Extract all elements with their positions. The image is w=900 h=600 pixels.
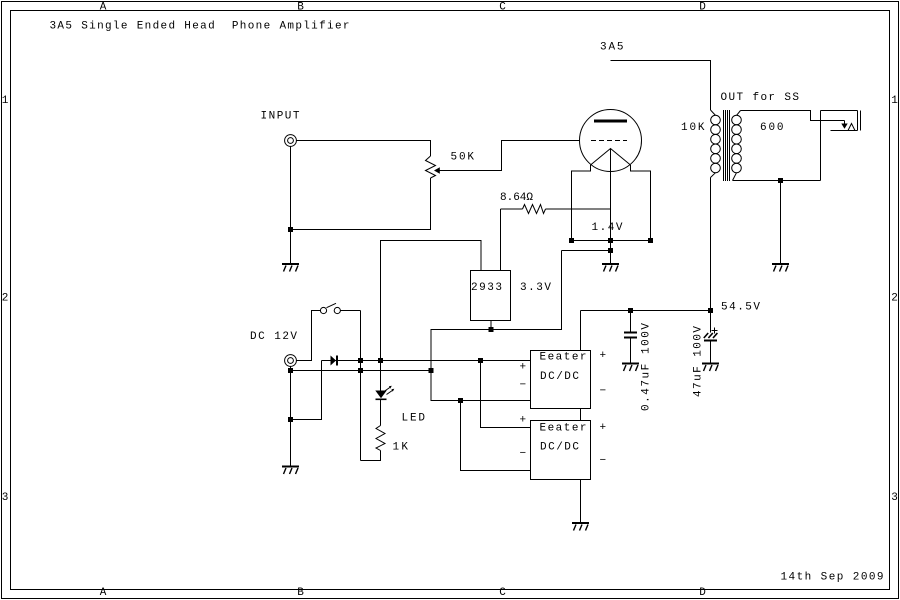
svg-text:D: D	[699, 587, 706, 599]
regulator U1 2933 box	[471, 271, 511, 321]
svg-text:2: 2	[891, 293, 898, 305]
svg-text:+: +	[600, 422, 607, 434]
wire phone jack left side	[820, 111, 822, 181]
wire input jack to volume pot top	[297, 141, 431, 157]
junction at led branch on 12V rail	[378, 358, 383, 363]
potentiometer VR1 wiper arrow	[434, 167, 440, 174]
junction at C1 on HV rail	[628, 308, 633, 313]
wire ground node to regulator ground riser	[562, 251, 611, 264]
wire 47uF top lead	[710, 311, 712, 333]
junction at filament ground stub	[608, 248, 613, 253]
wire filament right leg down to cathode rail	[631, 165, 651, 241]
wire led branch down	[380, 361, 382, 391]
potentiometer VR1 body	[426, 156, 436, 178]
wire filament left leg down to cathode rail	[572, 165, 591, 241]
junction at regulator bottom pin	[489, 327, 494, 332]
wire transformer primary bottom to HV rail	[710, 178, 712, 311]
junction at switch riser on 12V rail	[358, 358, 363, 363]
wire 1K bottom return	[361, 451, 381, 461]
junction at C2 on HV rail	[708, 308, 713, 313]
svg-text:+: +	[600, 350, 607, 362]
tube V1 filament	[591, 149, 631, 166]
wire dcdc series link	[580, 409, 582, 421]
wire transformer secondary top to jack	[741, 111, 845, 121]
wire dc minus rail	[291, 370, 432, 372]
svg-text:54.5V: 54.5V	[721, 302, 760, 314]
wire dcdc1 output plus riser	[580, 311, 582, 351]
ground at input jack	[282, 263, 299, 272]
svg-text:OUT for SS: OUT for SS	[721, 92, 800, 104]
junction at regulator ground node B	[429, 368, 434, 373]
junction at dcdc1 minus wire	[458, 398, 463, 403]
tube V1 plate	[594, 120, 627, 123]
svg-text:B: B	[297, 2, 304, 14]
svg-text:DC/DC: DC/DC	[540, 442, 579, 454]
wire dcdc1 minus input	[431, 371, 531, 401]
svg-text:3A5: 3A5	[600, 42, 624, 54]
wire 0.47uF top lead	[630, 311, 632, 332]
junction at dcdc2 plus riser	[478, 358, 483, 363]
capacitor C1 0.47uF plates	[624, 332, 637, 334]
wire 8.64ohm left lead to regulator output pin	[501, 208, 523, 210]
wire pot wiper to tube grid	[440, 141, 580, 171]
tube V1 grid	[591, 140, 627, 142]
wire dc jack to switch riser	[297, 311, 322, 361]
svg-text:1K: 1K	[393, 442, 409, 454]
wire switch/led riser	[360, 311, 362, 461]
wire 47uF bottom lead	[710, 342, 712, 363]
ground at transformer secondary	[772, 263, 789, 272]
svg-text:INPUT: INPUT	[261, 111, 300, 123]
junction at cathode rail left	[569, 238, 574, 243]
transformer T1 secondary coil	[732, 111, 742, 181]
svg-text:14th Sep 2009: 14th Sep 2009	[781, 572, 884, 584]
wire regulator output riser	[500, 209, 502, 271]
LED D2	[375, 391, 386, 399]
wire dcdc2 plus input riser	[481, 361, 531, 428]
svg-text:3: 3	[2, 492, 9, 504]
svg-text:2: 2	[2, 293, 9, 305]
svg-text:C: C	[499, 2, 506, 14]
svg-text:C: C	[499, 587, 506, 599]
junction at secondary ground	[778, 178, 783, 183]
resistor R2 8.64ohm body	[523, 205, 546, 214]
svg-text:3.3V: 3.3V	[520, 282, 551, 294]
svg-text:1.4V: 1.4V	[592, 222, 623, 234]
transformer T1 primary coil	[711, 110, 721, 178]
diode D1	[331, 356, 337, 366]
wire transformer secondary bottom run	[733, 180, 821, 182]
wire filament center stem	[610, 149, 612, 241]
input jack J1	[285, 135, 297, 147]
wire dcdc2 bottom to ground	[580, 480, 582, 523]
phone jack J2	[821, 111, 861, 131]
svg-text:47uF 100V: 47uF 100V	[693, 326, 705, 397]
wire input jack sleeve down	[290, 147, 292, 264]
wire switch to diode rail riser	[340, 310, 361, 312]
svg-text:1: 1	[891, 95, 898, 107]
svg-text:0.47uF 100V: 0.47uF 100V	[641, 323, 653, 411]
svg-text:10K: 10K	[681, 122, 705, 134]
svg-text:600: 600	[760, 122, 784, 134]
svg-text:2933: 2933	[471, 282, 502, 294]
wire regulator bottom pin	[490, 321, 492, 330]
svg-text:+: +	[520, 362, 527, 374]
ground at dcdc2	[572, 522, 589, 531]
wire 0.47uF bottom lead	[630, 339, 632, 363]
wire diode anode riser to ground	[291, 361, 322, 420]
svg-text:1: 1	[2, 95, 9, 107]
svg-text:3: 3	[891, 492, 898, 504]
junction at led return on minus rail	[358, 368, 363, 373]
svg-text:A: A	[100, 2, 107, 14]
svg-text:A: A	[100, 587, 107, 599]
wire HV 54.5V rail	[581, 310, 711, 312]
wire plate to transformer primary top	[611, 61, 711, 111]
svg-text:3A5 Single Ended Head Phone A: 3A5 Single Ended Head Phone Amplifier	[50, 21, 350, 33]
wire cathode rail stub to ground node	[610, 241, 612, 251]
wire regulator ground run	[431, 251, 562, 371]
ground at filament center	[602, 263, 619, 272]
svg-text:+: +	[520, 415, 527, 427]
svg-text:50K: 50K	[451, 152, 475, 164]
ground at C2	[702, 363, 719, 372]
wire dc jack sleeve to ground	[290, 367, 292, 466]
phone jack J2 tip arrow	[841, 124, 847, 129]
svg-text:D: D	[699, 2, 706, 14]
svg-text:−: −	[520, 380, 527, 392]
dcdc converter module U3 box	[531, 421, 591, 480]
wire 8.64ohm right lead to filament stem	[546, 208, 611, 210]
ground at dc input	[282, 466, 299, 475]
wire led cathode to 1K resistor	[380, 400, 382, 426]
junction at dc jack sleeve	[288, 368, 293, 373]
junction at diode anode return	[288, 417, 293, 422]
svg-text:−: −	[600, 386, 607, 398]
svg-text:−: −	[600, 455, 607, 467]
wire dcdc2 minus input riser	[461, 401, 531, 471]
svg-text:LED: LED	[402, 413, 426, 425]
junction at cathode rail right	[648, 238, 653, 243]
capacitor C2 plus mark	[712, 328, 718, 334]
tube V1 3A5 envelope	[580, 110, 642, 172]
ground at C1	[622, 363, 639, 372]
transformer T1 core	[724, 110, 730, 181]
switch SW1	[320, 303, 340, 313]
wire pot bottom to input ground node	[291, 178, 431, 230]
wire 12V diode rail	[322, 360, 531, 362]
dcdc converter module U2 box	[531, 351, 591, 409]
svg-text:−: −	[520, 448, 527, 460]
svg-text:B: B	[297, 587, 304, 599]
wire cathode rail	[572, 240, 651, 242]
phone jack J2 tip notch	[848, 124, 855, 131]
dc power jack J3	[285, 355, 297, 367]
svg-text:DC 12V: DC 12V	[250, 331, 297, 343]
junction at cathode rail center	[608, 238, 613, 243]
capacitor C2 47uF plates	[704, 333, 718, 338]
junction at input ground node	[288, 227, 293, 232]
svg-text:8.64Ω: 8.64Ω	[500, 192, 533, 204]
resistor R1 1K body	[376, 426, 385, 451]
svg-text:DC/DC: DC/DC	[540, 371, 579, 383]
wire regulator input pin run to 12V rail	[381, 241, 482, 361]
wire secondary ground drop	[780, 181, 782, 264]
